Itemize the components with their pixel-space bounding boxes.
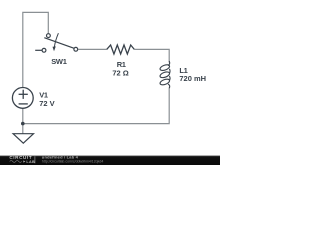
node junction dot at bottom of V1 (21, 122, 25, 126)
wire from V1 bottom to junction node (22, 108, 24, 123)
svg-text:72 Ω: 72 Ω (112, 68, 128, 77)
svg-text:720 mH: 720 mH (179, 74, 206, 83)
resistor R1 (107, 45, 135, 54)
wire from switch common terminal to resistor R1 left lead (78, 48, 107, 50)
svg-text:SW1: SW1 (51, 57, 66, 66)
voltage source V1 (12, 88, 33, 109)
ground (13, 134, 33, 144)
wire from V1 top up and over to switch top terminal (23, 12, 49, 87)
switch SW1 (35, 33, 78, 52)
svg-text:72 V: 72 V (39, 99, 54, 108)
svg-text:LAB: LAB (26, 160, 35, 164)
wire from junction node down to ground (22, 124, 24, 134)
CircuitLab logo (9, 155, 35, 164)
inductor L1 (159, 61, 170, 88)
wire from resistor R1 right lead to inductor L1 top (134, 49, 169, 62)
svg-text:http://circuitlab.com/c/ddw9hm: http://circuitlab.com/c/ddw9hm4/12qkd4 (42, 159, 104, 163)
wire from inductor L1 bottom along bottom rail to junction (23, 88, 169, 124)
